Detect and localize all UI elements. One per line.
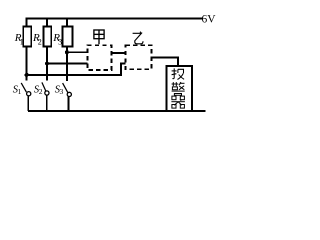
switch S2 lever [42, 82, 46, 91]
wire R3 bottom stem [66, 46, 68, 81]
wire S1 to bottom rail [27, 96, 29, 111]
svg-text:6V: 6V [202, 13, 217, 25]
label qi (Chinese char in alarm box) [171, 96, 185, 108]
box jia (dashed) [87, 45, 111, 70]
resistor R3 [63, 26, 73, 46]
svg-text:2: 2 [38, 37, 42, 46]
wire bus from R1 node under box jia, up to box yi left side [27, 63, 126, 75]
svg-text:1: 1 [20, 37, 24, 46]
label yi (Chinese char above dashed box yi) [133, 32, 143, 44]
wire R2 bottom stem [46, 46, 48, 80]
node junction dot on R1 branch [25, 73, 29, 77]
switch S2 contact circle [45, 91, 49, 95]
wire box jia right to box yi left [111, 52, 125, 54]
wire S2 to bottom rail [46, 95, 48, 111]
svg-text:2: 2 [39, 87, 43, 96]
wire top rail [26, 17, 203, 19]
wire bottom rail [28, 110, 205, 112]
wire box yi right to alarm top [151, 57, 178, 65]
switch S1 lever [21, 83, 26, 92]
svg-text:1: 1 [18, 87, 22, 96]
switch S3 contact circle [67, 92, 71, 96]
resistor R1 [23, 26, 31, 46]
wire from R3 node to box jia left side [67, 51, 87, 53]
wire R1 bottom stem [26, 46, 28, 80]
wire R3 top stem [66, 18, 68, 27]
node junction dot on R3 branch [65, 50, 69, 54]
svg-text:3: 3 [60, 87, 64, 96]
wire S3 to bottom rail [67, 97, 69, 111]
wire bus from R2 node to box jia left side [47, 63, 87, 65]
svg-text:3: 3 [58, 37, 62, 46]
switch S3 lever [63, 83, 68, 93]
resistor R2 [43, 26, 51, 46]
wire R2 top stem [46, 18, 48, 27]
wire R1 top stem [26, 18, 28, 27]
label jing (Chinese char in alarm box) [172, 82, 185, 95]
box yi (dashed) [125, 45, 151, 69]
node junction dot on R2 branch [45, 62, 49, 66]
label jia (Chinese char above dashed box jia) [94, 30, 104, 44]
switch S1 contact circle [27, 92, 31, 96]
alarm box [167, 66, 192, 111]
label bao (Chinese char in alarm box) [172, 68, 185, 79]
